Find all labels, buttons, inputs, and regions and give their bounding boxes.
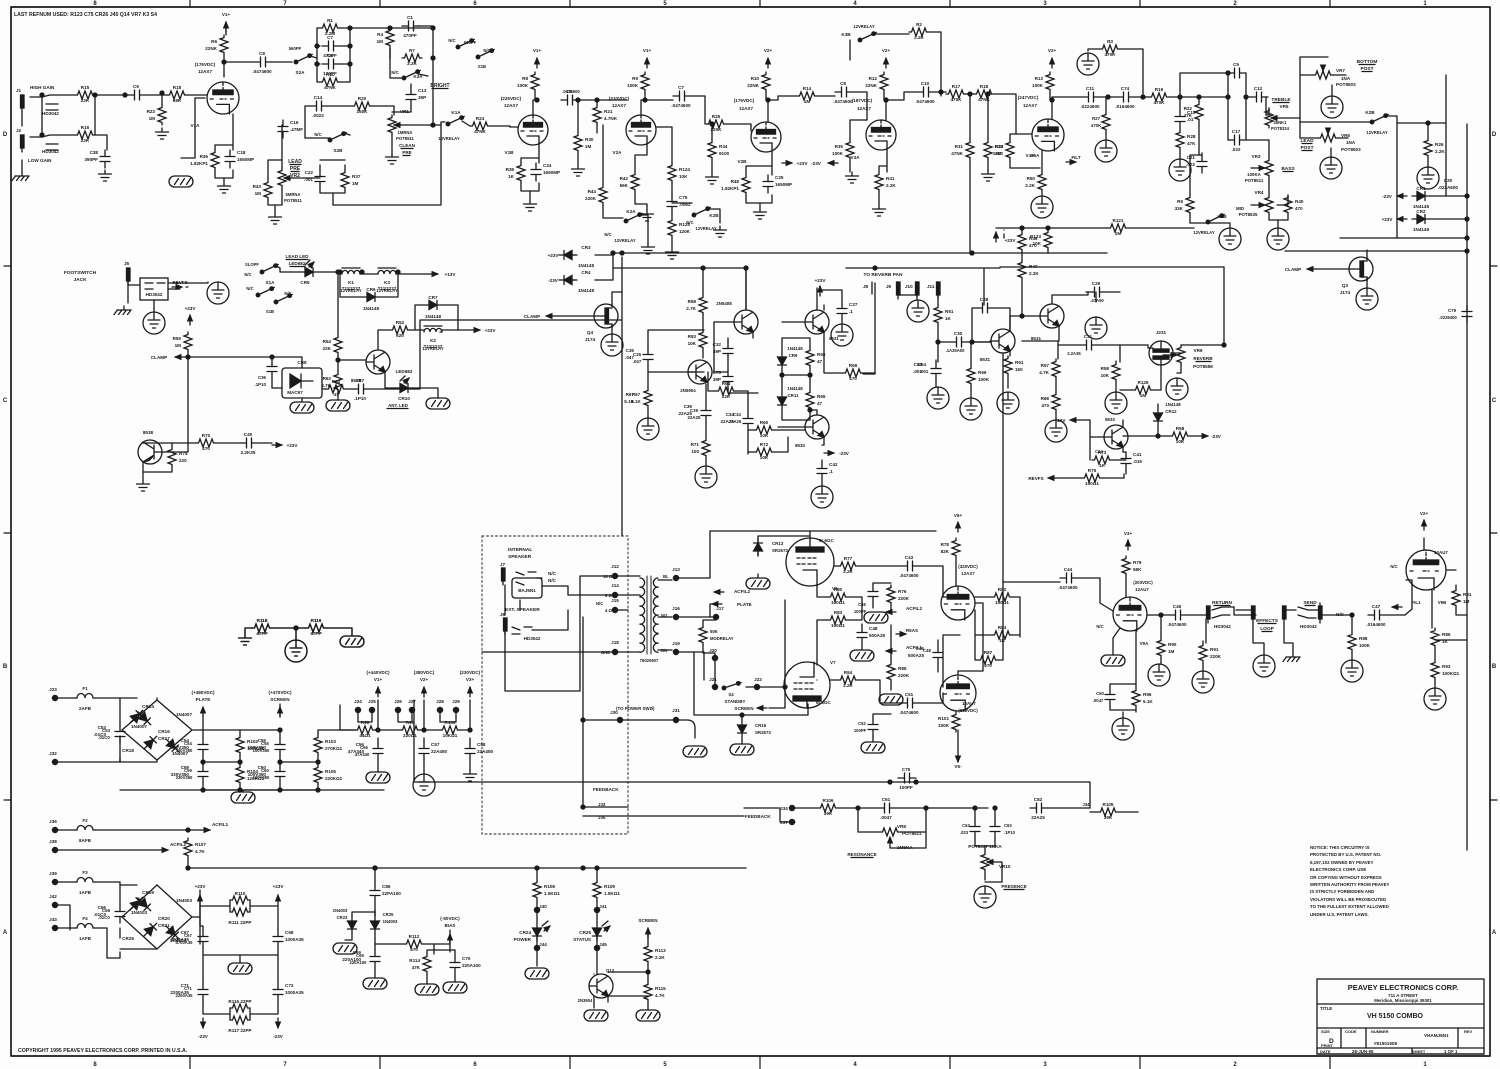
- resistor R119: [306, 618, 326, 636]
- label -50VDC: [440, 916, 460, 921]
- svg-text:(310VDC): (310VDC): [958, 708, 978, 713]
- capacitor C68: [273, 930, 304, 948]
- potentiometer VR4 mid: [1251, 195, 1273, 215]
- wire K3B R2: [850, 32, 941, 96]
- zone letter B left: [3, 664, 8, 670]
- svg-text:HD3042: HD3042: [146, 292, 163, 297]
- svg-text:470K: 470K: [1091, 123, 1102, 128]
- svg-text:FIL1: FIL1: [1411, 600, 1421, 605]
- ground: [666, 248, 679, 259]
- switch S1Ba: [256, 287, 274, 297]
- fuse F2: [75, 818, 95, 843]
- ground: [974, 886, 996, 908]
- svg-text:R75: R75: [1088, 468, 1097, 473]
- svg-text:C43: C43: [905, 555, 914, 560]
- zone tick marks: [190, 0, 1330, 1069]
- svg-text:C7: C7: [327, 35, 333, 40]
- wire led resistors: [537, 868, 597, 908]
- svg-text:J23: J23: [49, 687, 57, 692]
- resistor R63: [326, 379, 346, 397]
- relay K1 K1: [342, 268, 361, 291]
- wire VR8 loop: [858, 808, 926, 848]
- wire presence bus: [414, 700, 1090, 808]
- junction: [1222, 343, 1226, 347]
- wire R14: [768, 96, 835, 100]
- svg-text:CR7: CR7: [428, 295, 438, 300]
- svg-text:CR12: CR12: [1165, 409, 1177, 414]
- svg-text:2N5904: 2N5904: [680, 388, 696, 393]
- label CLEAN: [399, 143, 416, 149]
- svg-text:1K: 1K: [508, 174, 515, 179]
- ground: [524, 200, 537, 211]
- ground: [1105, 392, 1127, 414]
- resistor R88: [1348, 632, 1371, 652]
- svg-text:POT8503: POT8503: [1341, 147, 1361, 152]
- junction: [783, 685, 787, 689]
- jack J27: [408, 699, 416, 713]
- jack effects send bar: [1252, 606, 1256, 623]
- svg-text:(187VDC): (187VDC): [852, 98, 873, 103]
- resistor R108: [533, 880, 560, 900]
- wire R25: [705, 96, 736, 140]
- wire screen drop: [769, 687, 785, 708]
- junction: [1156, 434, 1160, 438]
- resistor R68: [1041, 392, 1060, 412]
- svg-text:V3+: V3+: [1124, 531, 1133, 536]
- svg-text:.1A25A00: .1A25A00: [946, 348, 966, 353]
- ground: [831, 324, 853, 346]
- jack J38: [49, 839, 57, 853]
- svg-text:CR21: CR21: [158, 923, 170, 928]
- svg-text:J36: J36: [49, 819, 57, 824]
- potentiometer VR6: [1318, 129, 1361, 152]
- wire C15 R28: [1179, 128, 1181, 159]
- svg-text:10K: 10K: [1176, 439, 1185, 444]
- wire clamp bus: [613, 268, 746, 310]
- resistor R85b: [1431, 628, 1451, 648]
- ground: [143, 312, 165, 334]
- svg-text:47: 47: [817, 401, 823, 406]
- svg-text:R21: R21: [604, 109, 613, 114]
- svg-text:-23V: -23V: [811, 161, 822, 166]
- resistor R42: [620, 172, 639, 192]
- svg-text:1000A35: 1000A35: [285, 937, 304, 942]
- junction: [338, 270, 400, 274]
- svg-text:J40: J40: [539, 904, 547, 909]
- capacitor C54: [913, 362, 941, 380]
- svg-text:UNDER U.S. PATENT LAWS.: UNDER U.S. PATENT LAWS.: [1310, 912, 1369, 917]
- svg-text:12AX7: 12AX7: [857, 106, 871, 111]
- svg-text:J12: J12: [611, 564, 619, 569]
- rail -23V ret -23V: [1198, 434, 1222, 439]
- junction: [1050, 98, 1054, 102]
- svg-text:D: D: [1492, 132, 1497, 138]
- resistor R91: [1199, 643, 1222, 663]
- resistor R104: [236, 765, 265, 785]
- wire Q9: [703, 268, 706, 404]
- svg-text:K2B: K2B: [709, 213, 719, 218]
- wire C44 to grid: [1003, 578, 1113, 611]
- bridge rectifier CR14 CR16 CR17 CR18: [122, 700, 192, 760]
- junction: [873, 266, 877, 270]
- wire R59: [824, 342, 875, 373]
- svg-text:.0164600: .0164600: [1366, 622, 1386, 627]
- junction: [294, 626, 298, 630]
- capacitor C10: [915, 81, 935, 104]
- wire C82 out: [1048, 807, 1090, 809]
- resistor R26: [1424, 138, 1445, 158]
- ground: [572, 165, 585, 176]
- triac CR8 MAC97: [282, 360, 322, 398]
- wire c56 gnd: [377, 768, 379, 772]
- svg-text:J39: J39: [49, 871, 57, 876]
- svg-text:VR7: VR7: [1336, 68, 1345, 73]
- capacitor C8b: [833, 81, 853, 104]
- svg-text:C63: C63: [962, 823, 970, 828]
- rail V2B supply V2+: [764, 48, 773, 68]
- svg-text:100K: 100K: [978, 377, 990, 382]
- wire V9B cathode: [1432, 590, 1435, 688]
- ground: [1031, 196, 1053, 218]
- wire C11 C74: [1052, 97, 1149, 100]
- wire V1B plate: [533, 92, 535, 115]
- svg-text:V3+: V3+: [466, 677, 475, 682]
- signal ACFIL2 out ACFIL2: [158, 842, 186, 850]
- svg-text:C68: C68: [285, 930, 294, 935]
- label EFFECTS: [1256, 618, 1279, 624]
- wire gnd rail: [120, 790, 384, 792]
- svg-text:C24: C24: [543, 163, 552, 168]
- svg-text:-23V: -23V: [273, 1034, 284, 1039]
- svg-text:6L6GC: 6L6GC: [816, 700, 831, 705]
- junction: [986, 92, 990, 96]
- resistor R62: [321, 372, 342, 392]
- svg-text:SLOPF: SLOPF: [245, 262, 259, 267]
- svg-text:4 Ω: 4 Ω: [605, 608, 612, 613]
- svg-text:PLATE: PLATE: [196, 697, 211, 702]
- svg-text:N/C: N/C: [1390, 564, 1397, 569]
- svg-text:1N4007: 1N4007: [131, 724, 148, 729]
- svg-text:1M: 1M: [1140, 393, 1147, 398]
- wire C46 out: [1187, 614, 1206, 616]
- svg-text:R35: R35: [835, 144, 844, 149]
- svg-text:C60: C60: [261, 768, 269, 773]
- tube V1A 12AX7: [191, 62, 239, 128]
- resistor R37: [341, 170, 361, 190]
- dashed enclosure internal speaker: [482, 536, 628, 834]
- svg-text:J16: J16: [672, 606, 680, 611]
- svg-text:R107: R107: [195, 842, 206, 847]
- svg-text:POT8511: POT8511: [284, 198, 302, 203]
- wire Q3: [1317, 250, 1367, 288]
- svg-text:C5: C5: [1233, 62, 1239, 67]
- svg-text:J44: J44: [539, 942, 547, 947]
- svg-text:1.82KP1: 1.82KP1: [721, 186, 739, 191]
- resistor R6: [205, 35, 228, 55]
- svg-text:Meridian, Mississippi 3930: Meridian, Mississippi 39301: [1374, 998, 1432, 1003]
- svg-text:1AFB: 1AFB: [79, 936, 92, 941]
- wire heater balance: [245, 628, 352, 640]
- svg-text:1650MP: 1650MP: [237, 157, 254, 162]
- wire loop gnds: [1253, 623, 1293, 655]
- label HIGH GAIN: [30, 85, 55, 90]
- wire VR1 bottom: [392, 84, 411, 153]
- svg-text:FILT: FILT: [1071, 155, 1081, 160]
- svg-text:VR4: VR4: [1255, 190, 1264, 195]
- svg-text:HIGH GAIN: HIGH GAIN: [30, 85, 55, 90]
- svg-text:S2B: S2B: [334, 148, 344, 153]
- switch contacts input: [46, 104, 58, 150]
- svg-text:R40: R40: [1295, 199, 1304, 204]
- svg-text:V2+: V2+: [882, 48, 891, 53]
- svg-text:FEEDBACK: FEEDBACK: [593, 787, 619, 792]
- svg-text:1.5KΩ1: 1.5KΩ1: [544, 891, 560, 896]
- wire R31 to bus: [969, 94, 971, 254]
- svg-text:C9: C9: [133, 84, 139, 89]
- svg-text:1MRNA: 1MRNA: [398, 130, 413, 135]
- jack J9: [875, 282, 900, 299]
- label S4: [728, 692, 734, 697]
- resistor R112: [404, 934, 424, 952]
- svg-text:47K: 47K: [1187, 141, 1196, 146]
- svg-text:MID: MID: [1236, 206, 1244, 211]
- transistor Q11: [1104, 425, 1128, 449]
- svg-text:C69: C69: [356, 953, 364, 958]
- svg-text:REVFS: REVFS: [172, 280, 187, 285]
- resistor R87: [978, 650, 998, 668]
- wire R41 gnd: [878, 192, 880, 205]
- svg-text:R66: R66: [978, 370, 987, 375]
- wire R21 bottom: [596, 125, 598, 133]
- wire C31: [1022, 341, 1120, 359]
- svg-text:100PF: 100PF: [899, 785, 913, 790]
- resistor R123: [1030, 230, 1052, 250]
- capacitor C14: [310, 95, 328, 118]
- wire S2A ladder left: [310, 28, 320, 82]
- jack J36: [49, 819, 57, 833]
- svg-text:R126: R126: [1138, 380, 1149, 385]
- wire R58c: [1190, 435, 1198, 437]
- ground: [846, 172, 859, 183]
- svg-text:CLEAN: CLEAN: [399, 143, 416, 148]
- svg-text:10K: 10K: [760, 433, 769, 438]
- resistor R8: [517, 72, 539, 92]
- svg-text:C41: C41: [1133, 452, 1142, 457]
- wire VR10: [985, 846, 1002, 882]
- wire VR9: [1177, 345, 1181, 373]
- svg-text:2.2K: 2.2K: [1025, 183, 1035, 188]
- resistor R113: [644, 944, 666, 964]
- svg-text:F2: F2: [82, 818, 88, 823]
- svg-text:D: D: [3, 132, 8, 138]
- capacitor C28: [976, 297, 994, 313]
- svg-text:PRE: PRE: [402, 150, 411, 155]
- svg-text:R94: R94: [844, 670, 853, 675]
- svg-text:12VRELAY: 12VRELAY: [1366, 130, 1387, 135]
- svg-text:4.7K: 4.7K: [1039, 370, 1049, 375]
- resistor R78: [941, 538, 960, 558]
- svg-text:(+480VDC): (+480VDC): [191, 690, 215, 695]
- svg-text:1N4148: 1N4148: [1165, 402, 1181, 407]
- label LEAD POST: [1300, 138, 1314, 144]
- svg-text:V5+: V5+: [954, 513, 963, 518]
- svg-text:.1: .1: [849, 309, 853, 314]
- wire VR7: [1300, 75, 1346, 96]
- wire q7 c: [823, 305, 825, 310]
- junction: [315, 26, 352, 66]
- svg-text:R33: R33: [995, 144, 1004, 149]
- capacitor C8: [252, 51, 272, 74]
- svg-text:.0474600: .0474600: [252, 69, 272, 74]
- svg-text:8533: 8533: [1105, 417, 1115, 422]
- resistor R33: [993, 140, 1014, 160]
- svg-text:J17: J17: [716, 606, 724, 611]
- jack J39: [49, 871, 57, 885]
- svg-text:V2+: V2+: [764, 48, 773, 53]
- junction: [646, 970, 650, 974]
- resistor R51: [934, 305, 954, 325]
- wire V1B grid: [510, 126, 518, 128]
- label BN: [661, 648, 667, 653]
- label TO REVERB PAN: [863, 272, 903, 278]
- transistor Q6: [351, 350, 390, 383]
- diode CR25d: [371, 916, 380, 934]
- wire C8 out: [272, 61, 292, 63]
- svg-text:(+470VDC): (+470VDC): [268, 690, 292, 695]
- svg-text:R12: R12: [869, 76, 878, 81]
- wire R107 bus: [188, 858, 746, 868]
- wire VR9 top bus: [1181, 267, 1224, 345]
- zone number 3 bottom: [1043, 1062, 1047, 1068]
- junction: [535, 866, 599, 870]
- junction: [1106, 95, 1110, 99]
- svg-text:SHEET: SHEET: [1412, 1049, 1426, 1054]
- rail V3+ V3+: [1124, 531, 1133, 550]
- wire hv filter: [203, 730, 240, 790]
- resistor R118: [252, 618, 272, 636]
- svg-text:C53: C53: [102, 728, 111, 733]
- junction: [294, 626, 298, 630]
- ground: [706, 173, 719, 184]
- svg-text:(176VDC): (176VDC): [195, 62, 216, 67]
- wire V4A cathode: [1041, 151, 1043, 196]
- resistor R66: [967, 366, 990, 386]
- ground: [1341, 660, 1363, 682]
- junction: [884, 98, 888, 102]
- svg-text:47NK: 47NK: [978, 97, 990, 102]
- label (230VDC): [460, 670, 481, 675]
- jack J2: [16, 128, 59, 154]
- svg-text:R116 22PP: R116 22PP: [228, 999, 251, 1004]
- resistor R34: [708, 140, 730, 160]
- svg-text:16 Ω: 16 Ω: [603, 574, 613, 579]
- svg-text:5,197,102 OWNED BY PE: 5,197,102 OWNED BY PEAVEY: [1310, 860, 1374, 865]
- chassis ground: [366, 772, 390, 783]
- ground: [269, 213, 282, 224]
- capacitor C57: [419, 742, 448, 760]
- svg-text:220K: 220K: [585, 196, 597, 201]
- svg-text:R16: R16: [81, 125, 90, 130]
- svg-text:R58: R58: [1176, 426, 1185, 431]
- jack J20: [709, 648, 717, 661]
- resistor R55: [173, 332, 192, 352]
- transistor Q13: [589, 974, 613, 998]
- jack J6: [500, 612, 507, 635]
- svg-text:VR6: VR6: [1341, 133, 1350, 138]
- wire S1A CR5: [276, 266, 342, 272]
- wire R30: [577, 100, 579, 165]
- svg-text:4700A35: 4700A35: [176, 940, 194, 945]
- svg-text:C66: C66: [102, 908, 111, 913]
- resistor R82: [992, 587, 1012, 605]
- jack effects return bar: [1283, 606, 1287, 623]
- svg-text:J43: J43: [49, 917, 57, 922]
- wire C7 out: [645, 96, 705, 100]
- resistor R49: [1018, 232, 1038, 252]
- svg-text:1M: 1M: [804, 99, 811, 104]
- wire C47 out: [1386, 614, 1405, 616]
- svg-text:(175VDC): (175VDC): [734, 98, 755, 103]
- svg-text:R42: R42: [620, 176, 629, 181]
- wire bridge lv: [120, 885, 200, 949]
- svg-text:3: 3: [1043, 1, 1047, 7]
- svg-text:J1: J1: [16, 88, 22, 93]
- svg-text:C: C: [3, 398, 8, 404]
- svg-text:ACFIL1: ACFIL1: [212, 822, 229, 827]
- svg-text:-23V: -23V: [198, 1034, 209, 1039]
- jack J24: [354, 699, 362, 713]
- wire lead bus to K1A: [333, 122, 445, 205]
- wire CR1 CR2 bus: [1430, 75, 1467, 219]
- LED CR25 status LED: [573, 921, 610, 942]
- svg-text:N/C: N/C: [284, 291, 291, 296]
- svg-text:N/C: N/C: [314, 132, 321, 137]
- jack J8: [863, 282, 872, 294]
- svg-text:8538: 8538: [143, 430, 154, 435]
- jack J30: [610, 710, 622, 723]
- junction: [611, 251, 974, 255]
- signal ACFIL2 b ACFIL2: [886, 606, 922, 612]
- capacitor C20: [1438, 178, 1458, 190]
- capacitor C82: [1030, 797, 1048, 820]
- svg-text:+23V: +23V: [815, 278, 827, 283]
- svg-text:R88: R88: [1359, 636, 1368, 641]
- jack J19: [672, 641, 680, 655]
- signal CLAMP CLAMP: [151, 355, 185, 360]
- svg-text:470K: 470K: [1154, 100, 1166, 105]
- signal SCREEN b SCREEN: [734, 706, 767, 711]
- svg-text:V1+: V1+: [374, 677, 383, 682]
- switch S2A: [294, 54, 312, 75]
- capacitor C51: [899, 692, 919, 715]
- svg-text:C44: C44: [1064, 567, 1073, 572]
- transistor Q9: [688, 360, 712, 384]
- svg-text:2: 2: [1233, 1062, 1237, 1068]
- switch K1B: [1206, 214, 1227, 224]
- svg-text:560PF: 560PF: [289, 46, 302, 51]
- chassis ground: [290, 402, 314, 413]
- svg-text:R19: R19: [1155, 87, 1164, 92]
- zone number 6 bottom: [473, 1062, 477, 1068]
- svg-text:R78: R78: [941, 542, 950, 547]
- svg-text:-23V: -23V: [1382, 194, 1393, 199]
- svg-text:LED682: LED682: [396, 369, 413, 374]
- label FEEDBACK box: [593, 787, 619, 792]
- wire CR12: [1158, 404, 1170, 436]
- zone number 5 bottom: [663, 1062, 667, 1068]
- svg-text:82K: 82K: [941, 549, 950, 554]
- label TREBLE: [1271, 97, 1291, 103]
